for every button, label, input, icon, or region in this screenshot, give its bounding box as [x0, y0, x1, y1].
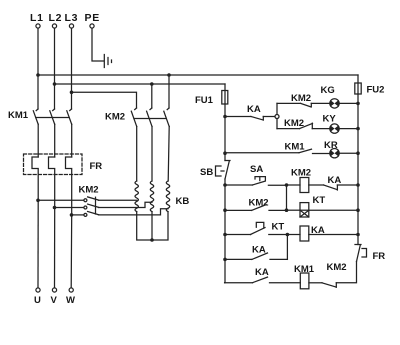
lamp KG — [321, 85, 359, 108]
contactor contact KM2 (NC, KM1 coil rung) — [322, 262, 357, 288]
relay contact KA (NC, KM2 coil rung) — [324, 175, 359, 190]
svg-text:KM2: KM2 — [249, 198, 269, 209]
svg-text:KM2: KM2 — [291, 93, 311, 104]
contactor KM1 main contacts (3 poles) — [8, 109, 72, 157]
node junction left bus KA rung — [223, 115, 227, 119]
svg-text:KG: KG — [321, 85, 335, 96]
relay contact KA (NO, self-hold rung4) — [225, 245, 287, 260]
svg-text:PE: PE — [85, 12, 100, 24]
svg-text:KY: KY — [323, 114, 337, 125]
inductor KB coil2 — [150, 181, 153, 212]
wire bus line1 L1 to FU2 drop — [38, 74, 358, 76]
wire L1 vertical top — [37, 28, 39, 109]
fuse FU2 — [355, 75, 385, 96]
wire left control bus upper — [224, 104, 226, 161]
node U terminal — [34, 288, 41, 306]
node L3 terminal — [65, 12, 79, 28]
node junction L3-line3 — [70, 91, 74, 95]
svg-text:FR: FR — [90, 161, 103, 172]
coil KT (time relay) — [287, 195, 359, 217]
coil KM2 — [287, 168, 324, 193]
node junction SA out — [285, 183, 289, 187]
wire L3 vertical top — [71, 28, 73, 109]
wire V phase lower — [54, 208, 56, 288]
node junction left bus SA rung — [223, 183, 227, 187]
wire parallel link rung1-rung2 — [286, 185, 288, 210]
svg-text:FU1: FU1 — [195, 95, 214, 106]
svg-text:KA: KA — [328, 175, 342, 186]
wire bypass line2 — [55, 207, 84, 209]
ground — [104, 55, 111, 68]
thermal contact FR (NC) — [355, 245, 385, 263]
svg-text:KM2: KM2 — [105, 112, 125, 123]
node junction line2-KM2pole2 — [150, 82, 154, 86]
contactor KM2 bypass contacts (3 poles) — [79, 185, 99, 217]
svg-text:KM2: KM2 — [79, 185, 99, 196]
node junction right bus KA coil rung — [356, 233, 360, 237]
contactor contact KM2 (NO, KG lamp rung) — [277, 93, 330, 107]
svg-text:L1: L1 — [30, 12, 44, 24]
node junction KM2 contact out — [285, 208, 289, 212]
svg-text:U: U — [34, 295, 41, 306]
svg-text:KB: KB — [176, 196, 190, 207]
wire bypass line3 — [72, 214, 84, 216]
wire U phase lower — [37, 200, 39, 287]
node junction right bus KG — [356, 102, 360, 106]
svg-text:KT: KT — [313, 195, 326, 206]
svg-text:L2: L2 — [49, 12, 63, 24]
svg-text:SB: SB — [200, 167, 213, 178]
node junction right bus KR — [356, 151, 360, 155]
contactor KM2 main contacts (3 poles) — [105, 108, 169, 181]
wire bypass line1 — [38, 199, 84, 201]
pushbutton SB (stop, NC) — [200, 161, 230, 180]
coil KA — [287, 225, 358, 241]
lamp KR — [324, 140, 358, 158]
node junction left bus KR rung — [223, 151, 227, 155]
inductor KB coil3 — [166, 181, 189, 212]
lamp KY — [323, 114, 359, 134]
node junction left bus KA rung2 — [223, 258, 227, 262]
pushbutton SA (start, NO) — [225, 164, 287, 185]
svg-text:W: W — [66, 295, 75, 306]
svg-text:KA: KA — [255, 267, 269, 278]
wire bypass out1 to coil1 tap — [99, 199, 137, 201]
thermal relay FR heaters — [24, 154, 103, 215]
node junction right bus KT rung — [356, 208, 360, 212]
wire L2 vertical top — [54, 28, 56, 109]
wire KM2 pole3 drop — [168, 75, 170, 108]
wire node A vertical — [276, 103, 278, 128]
wire W phase lower — [70, 215, 73, 288]
wire parallel link rung3-rung4 — [286, 235, 288, 260]
wire bypass out3 to coil3 tap — [99, 209, 169, 215]
wire PE to ground — [92, 28, 104, 61]
node L1 terminal — [30, 12, 44, 28]
wire bypass out2 to coil2 tap — [99, 202, 153, 207]
node bypass tap3 — [70, 213, 74, 217]
node junction L2-line2 — [53, 82, 57, 86]
node junction right bus KM2 coil rung — [356, 183, 360, 187]
svg-text:L3: L3 — [65, 12, 79, 24]
svg-text:SA: SA — [250, 164, 263, 175]
svg-text:FR: FR — [373, 251, 386, 262]
svg-text:KM2: KM2 — [291, 168, 311, 179]
relay contact KA (NO, KM1 coil rung) — [225, 267, 301, 283]
relay contact KA (NO, lamp feed rung) — [225, 104, 275, 120]
wire bus line3 L3 to KM2pole1 — [72, 92, 137, 108]
svg-text:KA: KA — [247, 104, 261, 115]
wire KB star point — [137, 212, 168, 240]
inductor KB coil1 — [135, 181, 138, 212]
coil KM1 — [294, 264, 322, 289]
node bypass tap1 — [36, 199, 40, 203]
fuse FU1 — [195, 84, 228, 106]
node L2 terminal — [49, 12, 63, 28]
wire KB coil2 bottom — [151, 212, 153, 240]
wire bus line2 L2 to FU1 — [55, 83, 226, 85]
svg-text:KM1: KM1 — [8, 110, 29, 121]
node junction L1-line1 — [36, 73, 40, 77]
node junction ring A — [275, 115, 279, 119]
node junction left bus KM2 rung — [223, 208, 227, 212]
svg-text:KT: KT — [272, 222, 285, 233]
svg-text:V: V — [51, 295, 58, 306]
wire KM2 pole2 drop — [151, 84, 153, 108]
node junction left bus KT rung — [223, 233, 227, 237]
node PE terminal — [85, 12, 100, 28]
node junction right bus KY — [356, 127, 360, 131]
contactor contact KM2 (NC, KY lamp rung) — [277, 118, 330, 129]
wire left control bus lower — [224, 179, 226, 283]
contactor contact KM2 (NO, self-hold rung) — [225, 198, 287, 211]
node star junction — [150, 238, 154, 242]
svg-text:KM2: KM2 — [327, 262, 347, 273]
node V terminal — [51, 288, 58, 306]
node junction KT contact out — [286, 233, 290, 237]
node bypass tap2 — [53, 206, 57, 210]
node W terminal — [66, 288, 75, 306]
svg-text:KM1: KM1 — [285, 142, 306, 153]
timer contact KT (NO delayed, KA coil rung) — [225, 222, 287, 235]
svg-text:FU2: FU2 — [367, 85, 385, 96]
node junction line1-KM2pole3 — [167, 73, 171, 77]
contactor contact KM1 (NO, KR lamp rung) — [225, 142, 330, 154]
wire right control bus — [357, 94, 359, 245]
